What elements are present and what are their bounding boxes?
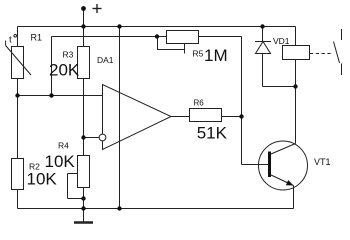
svg-text:t: t [9,34,12,45]
svg-text:R5: R5 [193,49,204,59]
svg-text:10K: 10K [45,152,76,171]
svg-text:R6: R6 [194,99,205,108]
svg-text:51K: 51K [197,124,228,143]
svg-text:10K: 10K [27,170,58,189]
svg-text:DA1: DA1 [97,55,114,65]
svg-text:R1: R1 [31,33,43,43]
svg-text:R4: R4 [58,141,69,151]
svg-text:VT1: VT1 [314,157,331,167]
svg-text:20K: 20K [49,61,80,80]
svg-text:1M: 1M [204,46,228,65]
svg-text:R3: R3 [63,50,74,60]
svg-text:VD1: VD1 [273,36,290,46]
